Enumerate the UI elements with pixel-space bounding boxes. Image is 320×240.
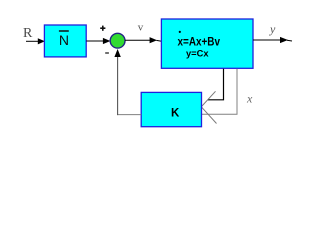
wire N-bar to summer xyxy=(86,38,110,44)
label + xyxy=(100,26,105,31)
wire K to summer feedback xyxy=(117,55,141,116)
summing junction xyxy=(110,33,125,48)
svg-text:R: R xyxy=(23,26,33,41)
svg-text:v: v xyxy=(138,22,144,34)
block K (gain) xyxy=(141,92,201,126)
wire R input arrow xyxy=(26,38,45,44)
svg-text:y=Cx: y=Cx xyxy=(186,48,209,58)
svg-text:x: x xyxy=(246,92,253,106)
wire plant output y xyxy=(253,37,292,43)
svg-text:x=Ax+Bv: x=Ax+Bv xyxy=(178,35,221,49)
svg-text:N: N xyxy=(59,32,69,48)
svg-text:y: y xyxy=(269,22,276,36)
label N-bar xyxy=(59,31,69,48)
label - xyxy=(105,52,109,54)
wire summer to plant xyxy=(125,37,162,43)
state bus arrowhead xyxy=(201,91,216,123)
wire state bus lower xyxy=(202,69,237,115)
svg-text:K: K xyxy=(171,108,180,120)
feedback arrow into summer xyxy=(114,49,120,57)
block plant (state-space) xyxy=(161,19,253,68)
label xdot=Ax+Bv xyxy=(178,31,221,49)
wire state bus upper xyxy=(208,69,224,100)
block N-bar (precompensator) xyxy=(44,25,86,57)
